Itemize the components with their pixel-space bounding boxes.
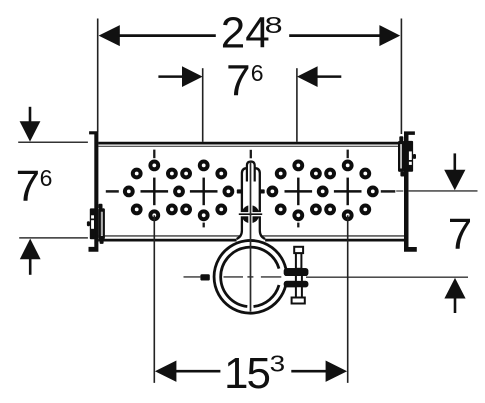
node arrow 7.6 pointing right (182, 66, 203, 87)
wire dim 7.6 extension right (296, 68, 298, 161)
clamp centreline dashes (184, 276, 282, 278)
node centre dash above hole A top (153, 150, 155, 159)
wire dim 7 right top line (409, 190, 478, 192)
slot tongue (247, 162, 255, 182)
clip left (wall anchor, rotated copy) (87, 204, 105, 244)
svg-text:8: 8 (265, 12, 283, 38)
plate top fold line (98, 145, 404, 147)
svg-text:7: 7 (448, 210, 472, 259)
node centre dash below hole C bottom (297, 223, 299, 228)
wire dim 7 right bottom line (306, 276, 468, 278)
holes row 2 (133, 170, 141, 178)
bolt head (294, 247, 303, 253)
plate bottom edge thick (98, 239, 404, 242)
node arrow left 15.3 (155, 361, 177, 382)
node centre dash below hole B bottom (203, 223, 205, 228)
clamp lug lower (284, 281, 309, 287)
svg-text:6: 6 (40, 165, 53, 191)
screw in slot (241, 205, 259, 223)
wire dim 15.3 line (176, 370, 221, 373)
node arrow right 15.3 (326, 361, 348, 382)
node arrow left 7.6 up (29, 258, 32, 275)
svg-text:7: 7 (226, 57, 250, 106)
wire dim 7.6 extension left (202, 68, 204, 161)
pipe clamp outer ring (214, 240, 286, 313)
svg-text:24: 24 (221, 9, 270, 58)
slot nub right (260, 189, 265, 193)
wire dim 15.3 extension right (347, 215, 349, 383)
wire centreline dash mid left (106, 190, 119, 193)
clamp lugs redrawn over bolt (284, 268, 309, 276)
wire dim 24.8 extension line right (400, 19, 402, 135)
bolt shaft (296, 275, 302, 298)
node arrow right 24.8 (379, 25, 400, 46)
svg-text:15: 15 (224, 349, 269, 398)
node arrow right 7 down (453, 153, 456, 171)
slot nub left (237, 189, 242, 193)
plate bottom fold line (98, 235, 404, 237)
wire dim 7.6 top tails (158, 75, 184, 78)
wire left dim 7.6 bottom line (19, 237, 88, 239)
crosshair C (285, 190, 313, 192)
crosshair D (334, 190, 362, 192)
pipe clamp inner ring (254, 285, 280, 307)
holes row 4 (133, 206, 141, 214)
node arrow left 7.6 down (29, 107, 32, 123)
node arrow left 24.8 (99, 25, 120, 46)
wire dim 15.3 extension left (153, 215, 155, 383)
svg-text:7: 7 (16, 162, 40, 211)
svg-text:6: 6 (251, 60, 264, 86)
wire dim 24.8 extension line left (97, 19, 99, 132)
bolt nut (292, 298, 305, 304)
holes row 3 centreline (125, 188, 133, 196)
clamp lug upper (284, 268, 309, 276)
node arrow right 7 up (454, 297, 457, 314)
slot (central channel) fill (237, 168, 266, 242)
holes row 1 (125, 162, 377, 220)
crosshair B (190, 190, 218, 192)
rail left (89, 131, 99, 252)
wire dim 24.8 line (119, 34, 216, 37)
node arrow 7.6 pointing left (297, 66, 318, 87)
node centre dash above slot (250, 150, 252, 159)
slot outline (237, 168, 266, 239)
holes row 5 (150, 211, 158, 219)
plate top edge thick (98, 142, 404, 145)
wire centreline dash mid right (381, 190, 396, 193)
node centre dash above hole D top (347, 150, 349, 159)
bolt neck (296, 253, 302, 269)
vertical centreline through slot and clamp (250, 162, 252, 312)
plate face (98, 142, 404, 242)
rail right (404, 131, 417, 251)
svg-text:3: 3 (270, 350, 286, 376)
clip right (wall anchor) (398, 136, 416, 176)
crosshair A (141, 178, 362, 206)
wire left dim 7.6 top line (18, 141, 88, 143)
clamp left tab (200, 274, 209, 280)
